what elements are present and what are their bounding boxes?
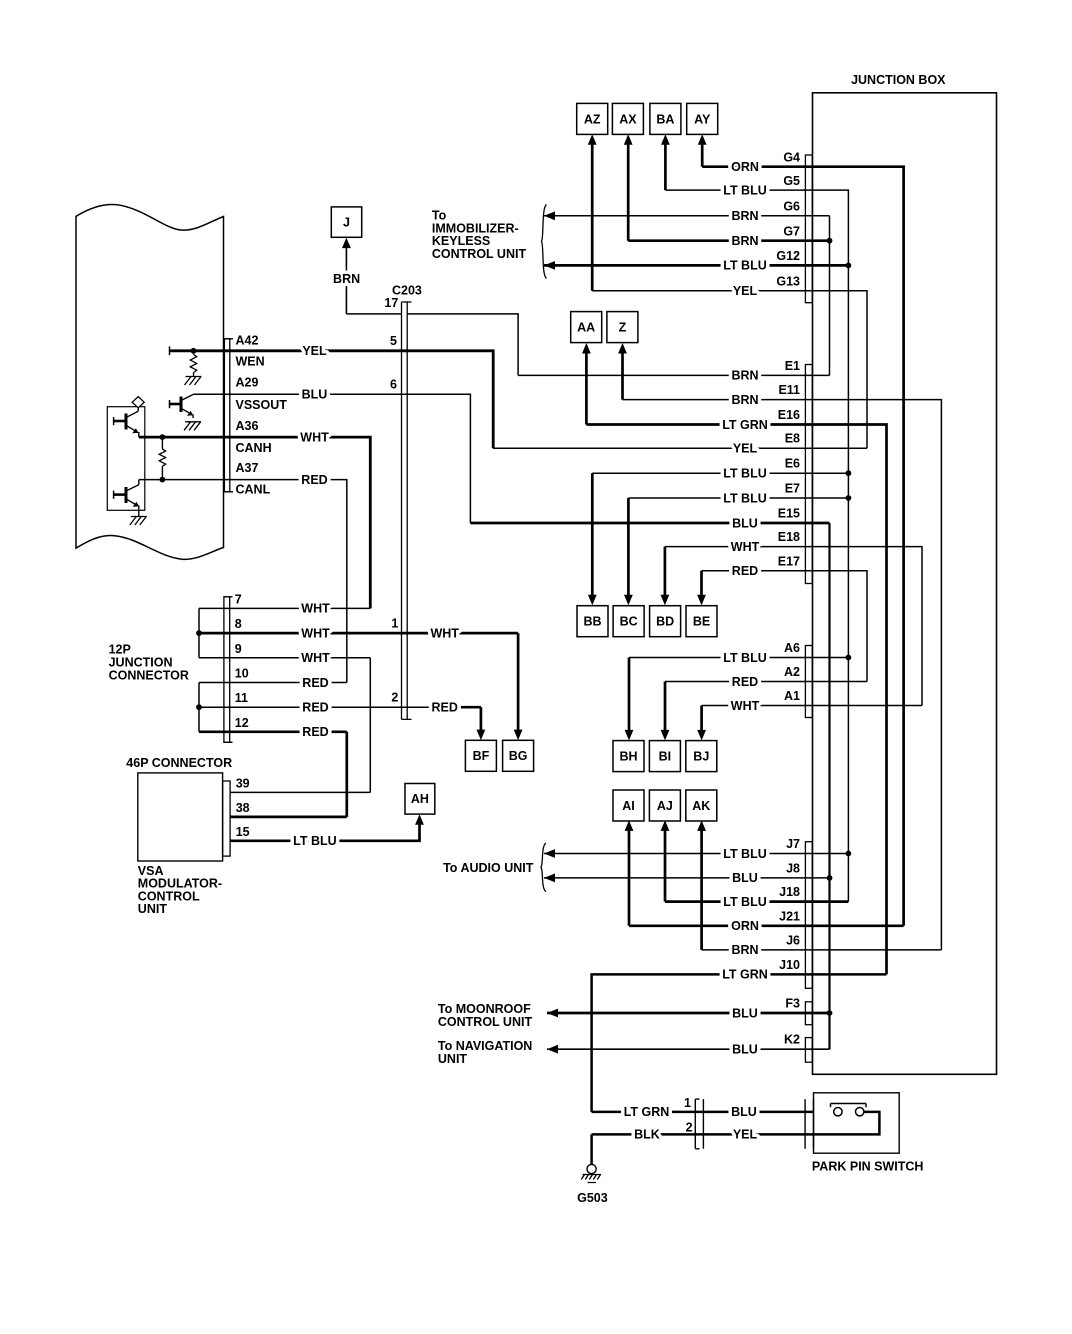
svg-text:RED: RED [431,701,457,715]
wire G13 YEL from AZ into box down to E8 [592,291,867,448]
svg-text:LT GRN: LT GRN [722,968,768,982]
svg-text:LT GRN: LT GRN [722,418,768,432]
svg-text:WHT: WHT [301,602,330,616]
svg-text:J8: J8 [786,861,800,875]
svg-text:E8: E8 [785,432,800,446]
wire E17 RED from BE into box down to A2 [702,571,868,682]
svg-text:RED: RED [301,473,327,487]
wire to terminal BB (thick) [591,473,594,601]
terminal box BD [650,606,681,637]
terminal box AI [613,790,644,821]
svg-text:LT BLU: LT BLU [723,651,767,665]
transistor pair enclosure box [107,407,145,511]
svg-text:WHT: WHT [731,540,760,554]
junction node row 8 [196,630,202,636]
svg-text:2: 2 [686,1120,693,1134]
junction node CANL [160,477,166,483]
wire 46P pin 38 (thick) [230,816,347,819]
svg-text:G6: G6 [783,200,800,214]
svg-text:1: 1 [391,616,398,630]
svg-text:YEL: YEL [733,1128,758,1142]
svg-text:LT BLU: LT BLU [723,467,767,481]
svg-text:A6: A6 [784,641,800,655]
junction node J8 [827,875,833,881]
wire 46P pin 39 [230,791,370,793]
svg-text:ORN: ORN [731,160,759,174]
svg-text:K2: K2 [784,1032,800,1046]
svg-text:BC: BC [620,615,638,629]
wire J18 LT BLU (thick) [665,900,848,903]
wire G4 ORN (thick) from AY down junction box to J21 [702,167,903,926]
terminal box AH [405,784,435,815]
wire to terminal AJ (thick) from J18 [664,825,667,902]
switch contact right [856,1108,864,1116]
wire J7 LT BLU to audio unit [544,853,848,855]
svg-text:E7: E7 [785,482,800,496]
wire E7 LT BLU from BC column [628,497,848,499]
wire E8 YEL row [493,447,867,449]
svg-text:LT BLU: LT BLU [723,491,767,505]
terminal box AY [687,103,718,134]
junction node on WEN wire [191,348,197,354]
wire J6 BRN [702,949,942,951]
junction box outline [813,93,997,1075]
svg-text:LT BLU: LT BLU [723,847,767,861]
svg-text:E18: E18 [778,530,800,544]
transistor Q1 (CANH, upper) [114,408,139,437]
wire G7 BRN (thick) from AX to junction [628,239,829,242]
terminal box AZ [577,103,608,134]
svg-text:12P: 12P [109,643,131,657]
wire to terminal BA (thick) [664,138,667,190]
wire to terminal AK (thick) from J6 [700,825,703,950]
svg-text:CANH: CANH [236,441,272,455]
ground G503 symbol [581,1164,601,1182]
bus 12P rows 7-9 [198,608,200,657]
wire E18 WHT from BD into box down to A1 [665,547,922,706]
svg-text:RED: RED [302,676,328,690]
svg-text:WEN: WEN [236,355,265,369]
wire BRN from C203 pin 17 up to terminal J [345,242,347,314]
wire to terminal BJ (thick) [700,706,703,737]
junction node CANH [160,434,166,440]
svg-text:BRN: BRN [731,234,758,248]
svg-text:CONNECTOR: CONNECTOR [109,669,189,683]
svg-text:UNIT: UNIT [138,902,168,916]
label To IMMOBILIZER-KEYLESS CONTROL UNIT [432,209,527,261]
svg-text:BE: BE [693,615,710,629]
wire E6 LT BLU from BB column [592,472,848,474]
svg-text:BLK: BLK [634,1128,660,1142]
terminal box BE [686,606,717,637]
svg-text:J10: J10 [779,958,800,972]
wire 46P pin 15 LT BLU (thick) to AH [230,819,419,841]
svg-text:BD: BD [656,615,674,629]
svg-text:BF: BF [473,749,490,763]
svg-text:AZ: AZ [584,112,601,126]
svg-text:38: 38 [236,801,250,815]
svg-text:BRN: BRN [731,369,758,383]
wire G12 LT BLU (thick) to immobilizer [544,264,848,267]
svg-text:10: 10 [235,667,249,681]
terminal box BI [649,741,680,772]
label To NAVIGATION UNIT [438,1039,532,1066]
wire E11 BRN from Z into box down to J6 [623,400,942,950]
svg-text:LT BLU: LT BLU [723,183,767,197]
junction node F3 [827,1010,833,1016]
ground below Q3 [184,422,201,431]
wire to terminal AA (thick) [585,347,588,424]
junction node row 11 [196,704,202,710]
svg-text:AA: AA [577,321,595,335]
wire color labels J rows [722,847,768,982]
svg-text:WHT: WHT [430,626,459,640]
ground below Q2 [130,517,147,526]
svg-text:WHT: WHT [301,651,330,665]
wire 12P row 10 RED [199,682,347,684]
wire E1 BRN row [518,374,829,376]
ground below WEN resistor [185,377,202,386]
wire color labels 12P rows [301,602,330,739]
wire to terminal BF (thick) [480,707,483,736]
VSA unit connector strip (A-pins) [224,339,229,492]
wire color labels F3 K2 rows [732,1006,758,1056]
svg-text:A36: A36 [236,419,259,433]
svg-text:AH: AH [411,792,429,806]
wire A1 WHT from BJ column [702,705,922,707]
connector strip K2 [805,1038,812,1063]
svg-text:J21: J21 [779,909,800,923]
wire 12P row 11 RED to BF [199,706,481,708]
svg-text:BA: BA [656,112,674,126]
terminal box BC [613,606,644,637]
switch harness connector strip (pins 1,2) [695,1099,703,1149]
switch contact left [834,1108,842,1116]
terminal box AK [686,790,717,821]
svg-text:E15: E15 [778,507,800,521]
svg-text:G5: G5 [783,174,800,188]
label 12P JUNCTION CONNECTOR [109,643,189,683]
svg-text:J6: J6 [786,933,800,947]
svg-text:CONTROL UNIT: CONTROL UNIT [438,1015,533,1029]
wire LT GRN row to pin 1 of switch connector [592,1111,814,1114]
svg-text:UNIT: UNIT [438,1052,468,1066]
bracket audio [541,843,546,892]
connector C203 strip [402,302,408,719]
svg-text:BJ: BJ [693,750,709,764]
svg-text:G12: G12 [776,249,800,263]
wire 12P row 8 WHT (thick) to BG [199,632,518,635]
svg-text:F3: F3 [785,996,800,1010]
svg-text:E17: E17 [778,554,800,568]
svg-text:VSSOUT: VSSOUT [236,398,288,412]
svg-text:AI: AI [622,799,635,813]
label VSA MODULATOR-CONTROL UNIT [138,864,222,916]
svg-text:ORN: ORN [731,919,759,933]
resistor on WEN line [193,351,195,355]
svg-text:A29: A29 [236,376,259,390]
junction node J7 [846,851,852,857]
connector strip A (A6-A1) [805,646,812,718]
svg-text:BLU: BLU [732,871,758,885]
svg-text:BH: BH [619,750,637,764]
wire to terminal BI (thick) [664,682,667,737]
end tick A42 wire [169,346,171,355]
wire to terminal BD (thick) [664,547,667,601]
svg-text:Z: Z [619,321,627,335]
svg-text:G503: G503 [577,1191,608,1205]
wire J8 BLU to audio unit [544,877,830,879]
terminal box J [331,207,361,237]
bracket immobilizer [542,205,547,279]
wire to terminal AX (thick) [627,138,630,240]
wire E15 BLU (thick) row [470,522,829,525]
wire to terminal AY (thick) [701,138,704,166]
svg-text:LT BLU: LT BLU [723,895,767,909]
svg-text:G13: G13 [776,275,800,289]
wire G5 LT BLU from BA into box down to J18 (with taps) [665,190,848,902]
svg-text:5: 5 [390,334,397,348]
svg-text:YEL: YEL [302,344,327,358]
wire color labels E rows [722,369,768,578]
wire A29 VSSOUT BLU to C203 pin 6 then down to E15 [193,394,470,523]
wire A2 RED from BI column [665,681,867,683]
svg-text:BRN: BRN [333,272,360,286]
svg-text:AY: AY [694,112,711,126]
svg-text:BG: BG [509,749,528,763]
wire A6 LT BLU from BH column [629,657,848,659]
svg-text:PARK PIN SWITCH: PARK PIN SWITCH [812,1159,924,1173]
svg-text:J7: J7 [786,837,800,851]
svg-text:1: 1 [684,1096,691,1110]
svg-text:YEL: YEL [733,442,758,456]
svg-text:JUNCTION BOX: JUNCTION BOX [851,73,946,87]
svg-text:J18: J18 [779,885,800,899]
wire to terminal BC (thick) [627,498,630,601]
wire E16 LT GRN (thick) from AA into box down to J10 [586,425,886,975]
terminal box BH [613,741,644,772]
svg-text:8: 8 [235,617,242,631]
wire to terminal BG (thick) [517,633,520,736]
wire 12P row 9 WHT down to 46P pin 39 [199,658,370,793]
wire color labels G rows [723,160,767,298]
connector strip E (E1-E17) [805,365,812,584]
svg-text:BLU: BLU [732,1043,758,1057]
svg-text:RED: RED [732,675,758,689]
wire G6-E1 vertical [829,216,831,376]
svg-text:JUNCTION: JUNCTION [109,656,173,670]
svg-text:RED: RED [302,701,328,715]
svg-text:BLU: BLU [732,516,758,530]
svg-text:17: 17 [384,296,398,310]
svg-text:AX: AX [619,112,637,126]
svg-text:12: 12 [235,716,249,730]
terminal box BA [650,103,681,134]
12P connector strip [224,597,230,743]
svg-text:7: 7 [235,593,242,607]
bus 12P rows 10-12 [198,683,200,732]
svg-text:BLU: BLU [731,1105,757,1119]
wire color labels park pin switch rows [624,1105,758,1142]
wire color labels right of C203 [430,626,459,714]
svg-text:BRN: BRN [731,209,758,223]
park pin switch box [814,1093,900,1153]
svg-text:E1: E1 [785,359,800,373]
svg-text:LT GRN: LT GRN [624,1105,670,1119]
svg-text:WHT: WHT [301,626,330,640]
svg-text:To AUDIO UNIT: To AUDIO UNIT [443,861,534,875]
svg-text:11: 11 [235,691,248,705]
svg-text:6: 6 [390,377,397,391]
svg-text:15: 15 [236,825,250,839]
junction node G7 [827,238,833,244]
wire to terminal Z (thick) [621,347,624,399]
wire A36 CANH WHT (thick) down to 12P row 7 [139,437,370,608]
wire 12P row 7 WHT [199,607,370,609]
terminal box AJ [649,790,680,821]
wire to terminal BE (thick) [700,571,703,601]
label To MOONROOF CONTROL UNIT [438,1002,533,1029]
svg-text:BLU: BLU [732,1006,758,1020]
svg-text:E16: E16 [778,408,800,422]
terminal box Z [607,312,638,343]
park pin switch connector strip [805,1099,813,1149]
wire to terminal AI (thick) from J21 [628,825,631,926]
svg-text:CONTROL UNIT: CONTROL UNIT [432,247,527,261]
terminal box BF [465,740,496,771]
svg-text:WHT: WHT [300,430,329,444]
svg-text:A2: A2 [784,665,800,679]
svg-text:AK: AK [692,799,710,813]
svg-text:E11: E11 [778,383,800,397]
svg-text:BB: BB [583,615,601,629]
svg-text:G7: G7 [783,225,800,239]
wire E15-K2 vertical (taps J8 F3) [828,523,830,1049]
junction node E6 [846,470,852,476]
wire to terminal AZ (thick) [591,138,594,290]
CAN termination resistor [161,437,163,449]
transistor Q3 (VSSOUT driver) [170,395,194,419]
wire A42 WEN YEL (thick) to C203 pin 5 then down to E8 [170,351,494,448]
svg-text:A37: A37 [236,461,259,475]
transistor Q2 (CANL, lower) [114,480,140,517]
junction node A6 [846,655,852,661]
wire J10 LT GRN down to park pin switch [592,974,887,1112]
svg-text:LT BLU: LT BLU [293,834,337,848]
svg-text:39: 39 [236,776,250,790]
connector strip G (G4-G13) [805,155,812,303]
46P connector tab [223,781,231,856]
svg-text:46P CONNECTOR: 46P CONNECTOR [126,756,232,770]
svg-text:BI: BI [659,750,672,764]
svg-text:RED: RED [732,564,758,578]
svg-text:BRN: BRN [731,943,758,957]
svg-text:BLU: BLU [302,388,328,402]
terminal box BJ [686,741,717,772]
wire A37 CANL RED down to 12P row 10 [139,480,347,683]
svg-text:BRN: BRN [731,393,758,407]
wire K2 BLU to navigation unit [547,1048,830,1050]
wire to terminal BH (thick) [628,658,631,737]
wire BLK row to pin 2 and ground [592,1133,814,1136]
wire G6 BRN to immobilizer, into box down to E1 [544,215,830,217]
svg-text:AJ: AJ [657,799,673,813]
wire color labels left of C203 [300,344,329,487]
svg-text:CANL: CANL [236,483,271,497]
svg-text:WHT: WHT [731,699,760,713]
svg-text:LT BLU: LT BLU [723,259,767,273]
wire C203 pin 17 to E1 (BRN) [407,314,518,376]
junction node G12 [846,263,852,269]
terminal box BB [577,606,608,637]
terminal box AX [612,103,643,134]
svg-text:YEL: YEL [733,284,758,298]
svg-text:G4: G4 [783,151,800,165]
svg-text:A42: A42 [236,333,259,347]
terminal box BG [503,740,534,771]
svg-text:E6: E6 [785,457,800,471]
svg-text:J: J [343,216,350,230]
svg-text:9: 9 [235,642,242,656]
connector strip F3 [805,1002,812,1025]
terminal box AA [571,312,602,343]
switch blade [831,1104,867,1108]
wire F3 BLU (thick) to moonroof control unit [547,1012,830,1015]
connector strip J (J7-J10) [805,842,812,989]
diode D1 diamond above Q1 [132,397,144,408]
wire J21 ORN (thick) [629,924,904,927]
46P connector box [138,773,223,861]
svg-text:RED: RED [302,725,328,739]
VSA modulator-control unit torn-edge outline [76,204,224,559]
svg-text:2: 2 [391,690,398,704]
junction node E7 [846,495,852,501]
wire 12P row 12 RED (thick) down to 46P pin 38 [199,732,347,817]
wire YEL inside switch [814,1112,880,1135]
svg-text:A1: A1 [784,689,800,703]
wire ground drop [590,1134,593,1164]
wire color labels A rows [723,651,767,713]
